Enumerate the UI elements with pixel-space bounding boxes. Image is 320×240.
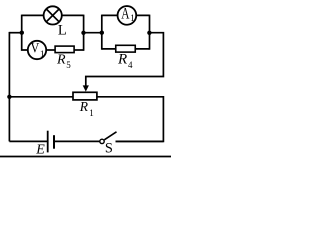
node left of right group [100, 31, 104, 35]
wire right vertical of left group [83, 15, 85, 51]
battery E short plate [53, 135, 55, 149]
svg-text:R: R [79, 99, 89, 114]
wire link from left bus to lamp node [9, 32, 21, 34]
node right of left group [81, 31, 85, 35]
svg-text:V: V [31, 41, 40, 57]
wire battery to switch [54, 140, 100, 142]
wire lamp branch top [22, 14, 84, 16]
switch S contact circle [100, 139, 104, 143]
wire switch to bottom right [116, 140, 164, 142]
rheostat slider arrow [83, 85, 89, 91]
wire bottom left to battery [9, 140, 47, 142]
wire ammeter branch [102, 14, 150, 16]
lamp L [44, 6, 62, 24]
voltmeter V1 [28, 41, 46, 60]
wire R4 branch [102, 48, 150, 50]
rheostat R1 [73, 92, 97, 100]
svg-text:A: A [121, 6, 129, 23]
resistor R5 [55, 46, 74, 53]
node at lamp branch split [20, 31, 24, 35]
wire middle link between groups [84, 32, 102, 34]
wire left vertical of right group [101, 15, 103, 50]
resistor label R5 [56, 52, 71, 70]
wire rheostat left [9, 96, 73, 98]
node right of right group [147, 31, 151, 35]
svg-text:1: 1 [40, 50, 45, 60]
svg-text:5: 5 [66, 60, 71, 70]
wire voltmeter branch down from node [22, 33, 29, 50]
wire voltmeter to R5 [47, 49, 55, 51]
node on left bus at rheostat row [7, 95, 11, 99]
wire rheostat right to bottom right corner [97, 97, 163, 142]
svg-text:S: S [105, 141, 113, 157]
wire right vertical of right group [149, 15, 151, 50]
svg-text:1: 1 [89, 108, 94, 118]
svg-text:E: E [35, 143, 45, 158]
switch S blade [104, 132, 116, 140]
wire left bus vertical [8, 32, 10, 141]
wire R5 to right vertical [74, 49, 84, 51]
resistor label R4 [117, 51, 133, 70]
svg-text:R: R [117, 51, 127, 67]
wire jog from right group node to slider [86, 33, 164, 86]
svg-text:1: 1 [130, 13, 135, 23]
svg-text:4: 4 [128, 60, 133, 70]
resistor R4 [116, 45, 136, 52]
svg-text:L: L [58, 23, 67, 39]
svg-text:R: R [56, 52, 66, 67]
wire left vertical of lamp branch [21, 15, 23, 33]
rheostat label R1 [79, 99, 94, 118]
battery E long plate [47, 131, 49, 153]
ammeter A1 [118, 6, 137, 25]
